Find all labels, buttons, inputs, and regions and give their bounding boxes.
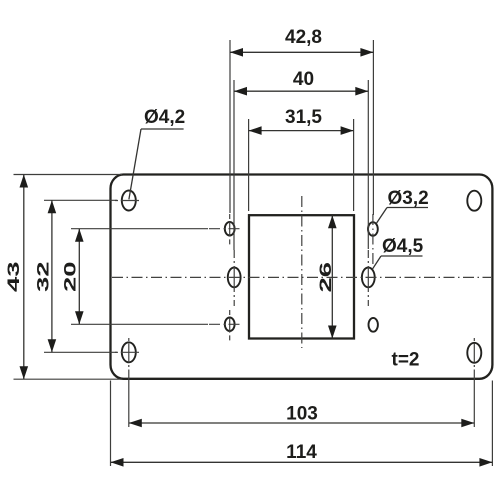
corner hole bottom-right: [467, 343, 481, 363]
hole O3.2 top-left: [225, 222, 235, 236]
hole O4.5 middle-right: [362, 268, 375, 288]
dimension 103: [129, 404, 475, 428]
centerline cross hole top-left: [209, 214, 240, 244]
dimension 26: [316, 215, 337, 338]
square cutout: [249, 215, 354, 338]
svg-text:t=2: t=2: [392, 350, 420, 371]
dimension 32: [34, 200, 57, 352]
dimension 40: [234, 69, 368, 96]
extension line 43 bottom: [14, 378, 123, 380]
extension line 32 top: [44, 199, 117, 201]
svg-text:Ø4,5: Ø4,5: [382, 236, 424, 257]
centerline vertical hole top-right: [372, 214, 374, 266]
corner hole top-right: [467, 191, 481, 211]
extension line 43 top: [14, 174, 123, 176]
svg-text:42,8: 42,8: [285, 27, 322, 48]
extension line 103 right: [473, 379, 475, 427]
centerline vertical hole middle-right: [367, 250, 369, 306]
dimension 43: [4, 175, 28, 380]
centerline vertical hole middle-left: [233, 250, 235, 306]
svg-text:26: 26: [316, 262, 335, 293]
centerline cross corner hole bottom-left: [112, 338, 139, 379]
corner hole bottom-left: [122, 342, 136, 362]
svg-text:Ø3,2: Ø3,2: [388, 188, 429, 209]
svg-text:103: 103: [286, 404, 318, 425]
dimension 114: [111, 442, 493, 467]
extension line 20 bottom: [71, 323, 208, 325]
dimension 20: [61, 229, 84, 325]
corner hole top-left: [122, 191, 136, 211]
centerline cross corner hole bottom-right: [473, 338, 475, 379]
centerline cross corner hole top-left: [112, 200, 139, 202]
hole plain bottom-right: [369, 318, 378, 332]
extension line 20 top: [71, 228, 208, 230]
hole O3.2 top-right: [368, 222, 378, 236]
svg-text:32: 32: [34, 262, 53, 293]
extension line 114 left: [110, 381, 112, 467]
svg-text:20: 20: [61, 262, 80, 293]
dimension 31.5: [249, 107, 354, 135]
centerline vertical center: [301, 196, 303, 348]
extension line 31.5 right: [353, 119, 355, 211]
hole O4.5 middle-left: [228, 268, 241, 288]
svg-text:31,5: 31,5: [285, 107, 322, 128]
label O4.2 leader: [129, 107, 185, 199]
svg-text:114: 114: [286, 442, 317, 463]
extension line 42.8 right: [372, 40, 374, 215]
svg-text:40: 40: [293, 69, 314, 90]
label O4.5 leader: [372, 236, 423, 269]
extension line 103 left: [128, 379, 130, 427]
label O3.2 leader: [376, 188, 428, 224]
extension line 42.8 left: [229, 40, 231, 213]
extension line 40 left: [233, 80, 235, 250]
svg-text:Ø4,2: Ø4,2: [144, 107, 185, 128]
extension line 114 right: [491, 381, 493, 467]
centerline horizontal main: [112, 276, 491, 278]
extension line 32 bottom: [44, 351, 117, 353]
hole O3.2 bottom-left: [225, 318, 235, 332]
centerline cross hole bottom-left: [209, 310, 240, 340]
svg-text:43: 43: [4, 262, 23, 293]
plate outline: [111, 175, 493, 379]
extension line 40 right: [367, 80, 369, 249]
extension line 31.5 left: [248, 119, 250, 211]
dimension 42.8: [230, 27, 373, 56]
